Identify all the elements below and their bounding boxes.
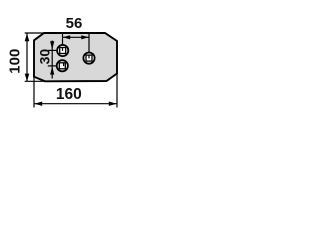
centre line stub in H3: [88, 55, 90, 58]
hole H1 ring: [57, 45, 68, 56]
extension line from hole 1 down from top edge (x=62.5) for 56 dim: [62, 34, 64, 51]
hole H2 square: [59, 63, 65, 69]
svg-text:30: 30: [36, 49, 52, 65]
arrow 160 right: [109, 102, 117, 106]
dimension line 30 vertical: [51, 41, 53, 79]
arrow 56 left: [63, 35, 70, 39]
arrow 56 right: [81, 35, 89, 39]
arrow 30 top (pointing down): [50, 41, 54, 49]
dimension line 160: [34, 103, 117, 105]
plate body: [34, 33, 117, 81]
hole H3 square: [86, 55, 92, 61]
tick at hole1 centre for 30 dim: [48, 49, 57, 51]
arrow 160 left: [34, 102, 42, 106]
svg-text:100: 100: [7, 49, 24, 74]
extension line top (y=33) for 100 dim: [25, 32, 44, 34]
hole H2 ring: [57, 60, 68, 71]
extension line left (x=34) for 160 dim: [33, 77, 35, 108]
dimension line 100: [26, 34, 28, 82]
arrow 30 bottom (pointing up): [50, 66, 54, 74]
arrow 100 top: [25, 33, 30, 41]
extension line from hole 3 (x=89) for 56 dim: [88, 34, 90, 59]
centre line stub in H1: [62, 48, 64, 51]
dimension line 56: [63, 36, 89, 38]
extension line right (x=117) for 160 dim: [116, 74, 118, 108]
hole H3 ring: [83, 53, 94, 64]
extension line bottom (y=81.3) for 100 dim: [25, 80, 45, 82]
hole H1 square: [60, 48, 66, 54]
svg-text:56: 56: [66, 15, 83, 32]
mark in H2: [63, 63, 65, 66]
background: [0, 0, 132, 132]
tick at hole2 centre for 30 dim: [48, 65, 57, 67]
arrow 100 bottom: [25, 74, 30, 82]
svg-text:160: 160: [56, 86, 82, 103]
